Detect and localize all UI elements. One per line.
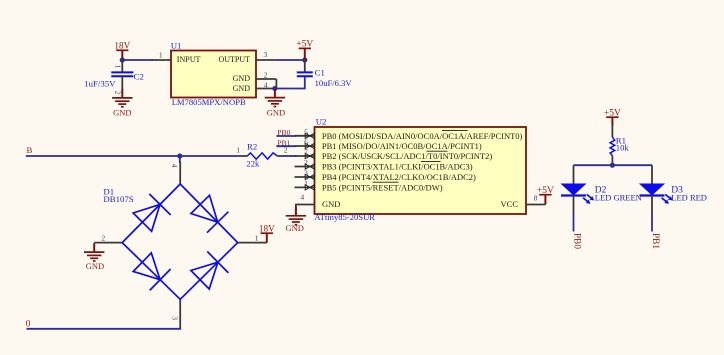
svg-text:GND: GND [233, 84, 251, 93]
U2 pin 4 GND [296, 193, 518, 211]
wire bridge top from junction [179, 156, 181, 163]
ground at D1 minus [84, 243, 104, 271]
svg-text:C2: C2 [134, 71, 144, 81]
svg-text:PB1 (MISO/DO/AIN1/OC0B/OC1A/PC: PB1 (MISO/DO/AIN1/OC0B/OC1A/PCINT1) [322, 141, 482, 151]
wire LED rail [574, 164, 653, 166]
svg-text:4: 4 [264, 81, 268, 90]
net label PB1 [276, 138, 296, 147]
overline OC1A pin5 [442, 129, 468, 131]
LED D2 LED GREEN [561, 165, 642, 213]
U1 pin 1 [152, 50, 172, 60]
net label PB0 [276, 128, 296, 137]
svg-text:10uF/6.3V: 10uF/6.3V [315, 78, 353, 88]
svg-text:C1: C1 [315, 68, 325, 78]
power port +5V at U1 output [296, 40, 313, 60]
U2 pin 6 (PB1) [295, 138, 482, 152]
svg-text:7: 7 [304, 148, 308, 157]
resistor R1 [610, 124, 629, 165]
wire U1 pin3 to +5V node [275, 59, 304, 61]
svg-text:1: 1 [236, 145, 240, 154]
svg-text:4: 4 [170, 164, 179, 168]
svg-text:5: 5 [304, 128, 308, 137]
power port 18V [114, 41, 130, 61]
wire pin2 down to pin4 [275, 79, 277, 89]
svg-text:LED RED: LED RED [671, 193, 707, 203]
junction pin4 gnd node [272, 86, 277, 91]
svg-text:18V: 18V [259, 223, 275, 233]
svg-text:GND: GND [86, 261, 104, 271]
wire net 0 [27, 328, 182, 330]
power port +5V at U2 VCC [537, 186, 554, 205]
svg-text:GND: GND [322, 199, 340, 209]
svg-text:+5V: +5V [604, 108, 621, 118]
capacitor C1 [297, 60, 353, 88]
svg-text:GND: GND [285, 223, 303, 233]
svg-text:R2: R2 [247, 141, 257, 151]
svg-text:VCC: VCC [501, 199, 519, 209]
power port 18V at D1 plus [259, 223, 275, 242]
svg-text:2: 2 [304, 158, 308, 167]
LED D3 LED RED [640, 165, 707, 213]
svg-text:LED GREEN: LED GREEN [595, 193, 642, 203]
svg-text:PB0 (MOSI/DI/SDA/AIN0/OC0A/OC1: PB0 (MOSI/DI/SDA/AIN0/OC0A/OC1A/AREF/PCI… [322, 131, 523, 141]
svg-text:PB1: PB1 [650, 233, 660, 249]
U2 pin 2 (PB3) [295, 158, 473, 172]
svg-text:6: 6 [304, 138, 308, 147]
bridge rectifier D1 [94, 162, 267, 329]
svg-text:3: 3 [263, 50, 267, 59]
svg-text:DB107S: DB107S [103, 194, 133, 204]
svg-text:2: 2 [114, 91, 123, 95]
svg-text:LM7805MPX/NOPB: LM7805MPX/NOPB [172, 97, 246, 107]
U2 pin 3 (PB4) [295, 169, 477, 183]
overline T0/INT0 pin7 [427, 150, 448, 152]
svg-text:PB3 (PCINT3/XTAL1/CLKI/OC1B/AD: PB3 (PCINT3/XTAL1/CLKI/OC1B/ADC3) [322, 162, 473, 172]
wire 18V node to U1 pin 1 [122, 59, 153, 61]
svg-text:U2: U2 [316, 117, 327, 127]
junction B / bridge top [177, 153, 182, 158]
MCU U2 body [314, 117, 526, 222]
U2 pin 7 (PB2) [295, 148, 493, 162]
U1 pin 4 [256, 81, 276, 90]
svg-text:B: B [27, 145, 33, 155]
svg-text:2: 2 [264, 71, 268, 80]
ground below U1 [265, 89, 285, 118]
svg-text:1: 1 [114, 65, 123, 69]
svg-text:1: 1 [255, 233, 259, 242]
wire R2 to U2 pin 7 [282, 155, 296, 157]
junction +5V node [302, 57, 307, 62]
wire pin4 node to C1 [275, 76, 305, 88]
svg-text:ATtiny85-20SUR: ATtiny85-20SUR [314, 212, 375, 222]
junction 18V node [120, 57, 125, 62]
svg-text:PB0: PB0 [572, 233, 582, 249]
power port +5V at R1 [604, 108, 621, 126]
svg-text:+5V: +5V [537, 186, 554, 196]
overline OC1B pin2 [421, 161, 441, 163]
svg-text:1: 1 [304, 179, 308, 188]
svg-text:22k: 22k [246, 159, 260, 169]
svg-text:2: 2 [101, 233, 105, 242]
svg-text:10k: 10k [616, 143, 630, 153]
svg-text:1: 1 [159, 50, 163, 59]
svg-text:INPUT: INPUT [177, 55, 201, 64]
wire D3 cathode [651, 213, 653, 232]
svg-text:U1: U1 [171, 40, 182, 50]
overline RESET pin1 [373, 181, 399, 183]
svg-text:GND: GND [267, 108, 285, 118]
U1 pin 2 [256, 71, 276, 80]
wire net B [26, 155, 241, 157]
wire D2 cathode [573, 213, 575, 232]
resistor R2 [236, 141, 287, 168]
U2 pin 5 (PB0) [295, 128, 523, 142]
svg-text:PB4 (PCINT4/XTAL2/CLKO/OC1B/AD: PB4 (PCINT4/XTAL2/CLKO/OC1B/ADC2) [322, 172, 476, 182]
junction R1 to rail [610, 163, 615, 168]
svg-text:PB2 (SCK/USCK/SCL/ADC1/T0/INT0: PB2 (SCK/USCK/SCL/ADC1/T0/INT0/PCINT2) [322, 151, 492, 161]
svg-text:+5V: +5V [296, 40, 313, 50]
regulator U1 body [171, 40, 256, 107]
ground below U2 [285, 207, 306, 233]
svg-text:GND: GND [233, 74, 251, 83]
svg-text:1uF/35V: 1uF/35V [84, 79, 116, 89]
U2 pin 8 VCC [526, 193, 545, 204]
svg-text:3: 3 [171, 316, 180, 320]
U1 pin 3 [256, 50, 275, 60]
svg-text:3: 3 [304, 169, 308, 178]
U2 pin 1 (PB5) [295, 179, 443, 193]
svg-text:GND: GND [113, 108, 131, 118]
svg-text:OUTPUT: OUTPUT [218, 55, 250, 64]
svg-text:18V: 18V [114, 41, 130, 51]
capacitor C2 [84, 60, 144, 95]
svg-text:PB5 (PCINT5/RESET/ADC0/DW): PB5 (PCINT5/RESET/ADC0/DW) [322, 183, 443, 193]
svg-text:4: 4 [300, 193, 304, 202]
ground below C2 [112, 89, 132, 118]
